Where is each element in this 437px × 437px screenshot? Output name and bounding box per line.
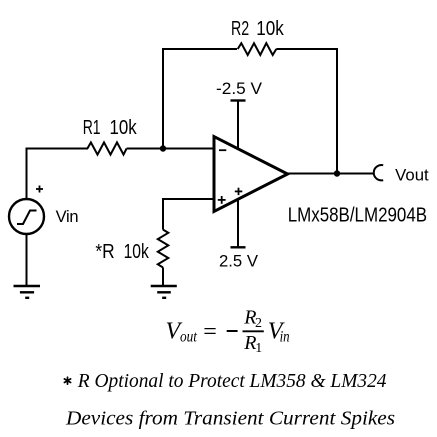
terminal Vout: [374, 165, 383, 180]
svg-text:R2: R2: [231, 18, 249, 40]
minus sign inverting input: [219, 149, 226, 151]
equation Vout = -(R2/R1)Vin: [166, 307, 290, 356]
output wire: [288, 173, 374, 175]
svg-text:out: out: [180, 329, 197, 346]
ground under *R: [151, 286, 177, 298]
svg-text:=: =: [203, 319, 217, 345]
wire feedback up and across: [163, 49, 237, 149]
svg-text:R1: R1: [83, 117, 101, 139]
svg-text:2: 2: [255, 316, 262, 331]
svg-text:LMx58B/LM2904B: LMx58B/LM2904B: [288, 205, 427, 227]
resistor R2: [238, 43, 277, 55]
plus sign non-inverting input: [218, 196, 226, 204]
voltage source V1: [9, 199, 44, 234]
svg-text:10k: 10k: [110, 117, 138, 139]
wire source top to input: [27, 149, 89, 200]
asterisk footnote marker: [64, 377, 70, 384]
node B output junction dot: [334, 170, 340, 176]
svg-text:Devices from Transient Current: Devices from Transient Current Spikes: [65, 407, 395, 429]
node A junction dot: [160, 145, 166, 151]
wire feedback down to output: [276, 49, 337, 174]
svg-text:in: in: [280, 329, 290, 346]
svg-text:-2.5 V: -2.5 V: [216, 79, 263, 98]
svg-text:1: 1: [255, 341, 262, 356]
svg-text:Vout: Vout: [395, 166, 429, 184]
svg-text:10k: 10k: [124, 241, 150, 263]
resistor R1: [87, 142, 126, 154]
wire R1 to op-amp inverting input: [127, 148, 216, 150]
svg-text:2.5 V: 2.5 V: [219, 252, 259, 271]
plus sign positive supply: [235, 188, 243, 195]
resistor *R: [158, 230, 169, 268]
svg-text:R Optional to Protect LM358 &: R Optional to Protect LM358 & LM324: [77, 370, 387, 392]
svg-text:*R: *R: [95, 241, 114, 263]
polarity plus of source: [36, 186, 43, 193]
wire resistor to ground: [162, 268, 164, 287]
svg-text:10k: 10k: [256, 18, 284, 40]
ground under source: [14, 286, 41, 298]
wire source bottom to ground: [26, 234, 28, 286]
negative supply pin: [237, 101, 239, 151]
op-amp U1: [214, 137, 288, 212]
wire non-inverting input: [163, 199, 216, 230]
svg-text:Vin: Vin: [56, 208, 79, 226]
positive supply pin: [237, 198, 239, 247]
